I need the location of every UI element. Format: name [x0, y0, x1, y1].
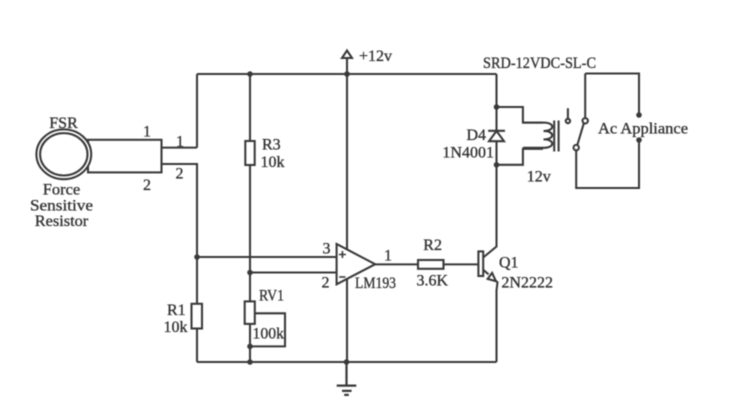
node: relay coil bottom / D4 anode / collector	[494, 162, 500, 168]
svg-text:10k: 10k	[164, 319, 188, 336]
resistor R3	[249, 74, 251, 273]
resistor R1	[196, 257, 198, 362]
resistor R2	[418, 260, 444, 269]
node: junction R3/RV1/op-amp - input	[247, 270, 253, 276]
svg-text:Ac Appliance: Ac Appliance	[598, 121, 688, 138]
svg-text:2: 2	[176, 166, 184, 183]
node: bottom rail / RV1	[247, 359, 253, 365]
relay K1 coil bottom bracket	[497, 149, 544, 165]
node: bottom rail / ground	[344, 359, 350, 365]
wire: appliance loop bottom	[576, 140, 639, 188]
op-amp U1 LM193	[337, 244, 376, 284]
node: junction FSR/R1/op-amp + input	[194, 254, 200, 260]
svg-text:R2: R2	[423, 237, 442, 254]
wire: op-amp GND pin	[346, 279, 348, 362]
node: relay coil top / D4 cathode	[494, 104, 500, 110]
wire: FSR pin 1 lead	[162, 147, 198, 149]
transistor Q1 collector lead	[483, 165, 496, 258]
power +12v symbol	[342, 51, 352, 75]
wire: op-amp + input (pin 3)	[197, 256, 337, 258]
op-amp plus sign	[339, 251, 346, 258]
svg-text:SRD-12VDC-SL-C: SRD-12VDC-SL-C	[483, 55, 596, 72]
node: junction top rail / op-amp V+	[344, 71, 350, 77]
svg-text:R1: R1	[167, 302, 186, 319]
node: junction top rail / R3	[247, 71, 253, 77]
svg-text:Sensitive: Sensitive	[30, 197, 93, 214]
wire: R2 to Q1 base	[444, 263, 479, 265]
svg-text:Q1: Q1	[499, 255, 519, 272]
wire: top rail corner down to relay	[495, 74, 497, 107]
svg-text:Force: Force	[43, 182, 81, 199]
svg-text:10k: 10k	[261, 154, 285, 171]
wire: FSR pin 2 lead	[162, 164, 198, 257]
op-amp minus sign	[339, 276, 345, 278]
node: appliance terminal top	[636, 112, 642, 118]
svg-text:R3: R3	[262, 137, 281, 154]
svg-text:1: 1	[176, 134, 184, 151]
svg-text:2: 2	[143, 177, 151, 194]
svg-text:2: 2	[322, 275, 330, 292]
relay K1 coil top bracket	[497, 107, 544, 123]
svg-text:Resistor: Resistor	[35, 213, 89, 230]
ground symbol	[337, 362, 357, 395]
node: appliance terminal bottom	[636, 137, 642, 143]
svg-text:1: 1	[143, 124, 151, 141]
svg-text:+12v: +12v	[359, 48, 392, 65]
wire: appliance loop top	[585, 74, 639, 116]
wire: op-amp - input (pin 2)	[250, 271, 337, 273]
transistor Q1 emitter arrow	[488, 273, 496, 281]
wire: left vertical from rail to FSR pin1	[196, 74, 198, 148]
svg-text:FSR: FSR	[49, 115, 78, 132]
wire: top +12v rail	[197, 73, 497, 75]
FSR body circle	[36, 129, 91, 179]
wire: bottom ground rail	[197, 361, 497, 363]
transistor Q1 emitter lead	[483, 270, 497, 362]
svg-text:D4: D4	[467, 127, 487, 144]
relay K1 NC contact stub	[567, 108, 569, 119]
FSR body rectangle	[88, 140, 162, 173]
wire: op-amp output to R2	[375, 263, 418, 265]
svg-text:2N2222: 2N2222	[501, 275, 553, 292]
relay K1 core lines	[554, 121, 558, 152]
wire: RV1 wiper loop	[250, 313, 285, 346]
wire: op-amp V+ pin	[346, 74, 348, 249]
relay K1 NO contact	[584, 74, 586, 119]
node: wiper to bottom lead	[247, 344, 253, 350]
transistor Q1 base bar	[478, 251, 483, 276]
svg-text:1: 1	[384, 248, 392, 265]
svg-text:LM193: LM193	[355, 275, 396, 292]
svg-text:3: 3	[323, 241, 331, 258]
svg-text:100k: 100k	[253, 326, 285, 343]
diode D4	[495, 107, 497, 165]
svg-text:1N4001: 1N4001	[442, 145, 494, 162]
relay K1 common contact and arm	[574, 145, 579, 150]
svg-text:3.6K: 3.6K	[417, 272, 449, 289]
svg-text:12v: 12v	[527, 169, 551, 186]
potentiometer RV1	[249, 273, 251, 363]
svg-text:RV1: RV1	[259, 288, 284, 305]
relay K1 coil loops	[523, 123, 552, 148]
